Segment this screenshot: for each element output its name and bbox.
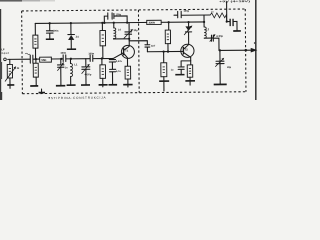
svg-text:input: input	[1, 52, 9, 55]
svg-text:100n: 100n	[53, 29, 59, 33]
svg-text:100p: 100p	[116, 13, 122, 16]
svg-text:4,7u: 4,7u	[116, 70, 121, 73]
svg-text:100n: 100n	[60, 51, 66, 55]
svg-text:T1: T1	[125, 49, 129, 53]
svg-text:40p: 40p	[227, 66, 232, 69]
svg-text:0,47u: 0,47u	[116, 60, 123, 63]
svg-text:56K: 56K	[41, 58, 46, 62]
svg-text:4n7: 4n7	[151, 45, 156, 48]
svg-text:T2: T2	[185, 48, 189, 52]
svg-text:100p: 100p	[184, 10, 190, 13]
svg-text:100n: 100n	[88, 51, 94, 55]
svg-text:L1: L1	[74, 62, 78, 66]
svg-text:4÷20p: 4÷20p	[216, 35, 223, 38]
svg-text:30p: 30p	[134, 29, 139, 32]
svg-text:LF: LF	[1, 47, 5, 51]
svg-text:STIPRINA-CONSTRUKCIJA: STIPRINA-CONSTRUKCIJA	[51, 96, 107, 100]
svg-text:+9V (4÷18V): +9V (4÷18V)	[219, 0, 250, 3]
svg-text:220R: 220R	[149, 21, 155, 25]
svg-text:4÷20p: 4÷20p	[85, 73, 92, 76]
